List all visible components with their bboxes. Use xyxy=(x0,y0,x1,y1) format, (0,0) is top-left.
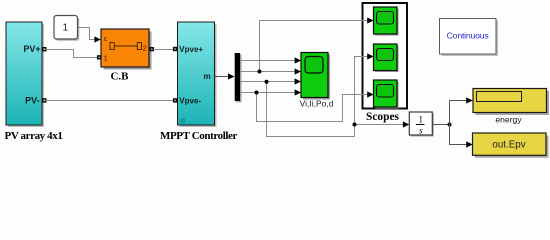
svg-text:c: c xyxy=(104,36,108,43)
svg-text:Vi,Ii,Po,d: Vi,Ii,Po,d xyxy=(300,99,334,109)
display block energy xyxy=(473,89,549,116)
wire to energy display xyxy=(450,97,473,124)
breaker icon xyxy=(110,43,147,53)
wire demux out4 d xyxy=(240,89,301,95)
svg-text:m: m xyxy=(203,72,210,81)
svg-text:energy: energy xyxy=(495,115,522,125)
wire PV- to Vpve- xyxy=(46,100,175,102)
svg-text:1: 1 xyxy=(63,23,68,34)
port C.B input 1 xyxy=(97,55,102,59)
wire constant to C.B c xyxy=(78,28,101,43)
svg-text:1: 1 xyxy=(419,115,424,125)
constant C1 value 1 xyxy=(54,16,79,41)
junction dot integrator output xyxy=(448,123,452,127)
junction dot on out4 xyxy=(255,91,259,95)
scope Vi,Ii,Po,d xyxy=(301,53,330,100)
port Vpve+ xyxy=(173,47,177,51)
port Vpve- xyxy=(173,98,177,102)
svg-text:MPPT Controller: MPPT Controller xyxy=(160,130,238,142)
svg-text:PV array 4x1: PV array 4x1 xyxy=(5,130,63,142)
block out.Epv To Workspace xyxy=(473,133,549,158)
wire PV+ to C.B port 1 xyxy=(46,50,98,58)
block Continuous powergui xyxy=(440,19,499,57)
branch wire Ii to scope S1 xyxy=(260,17,374,71)
svg-text:Scopes: Scopes xyxy=(366,111,399,123)
block PV array 4x1 xyxy=(6,22,44,127)
Scopes group box xyxy=(363,3,408,109)
block MPPT Controller xyxy=(178,22,217,127)
junction dot on out2 xyxy=(258,70,262,74)
wire integrator output xyxy=(432,124,449,126)
wire m to demux xyxy=(215,73,235,79)
svg-text:1: 1 xyxy=(104,55,108,62)
svg-text:2: 2 xyxy=(143,46,147,53)
branch wire d to scope S3 xyxy=(257,91,374,121)
demux xyxy=(235,53,242,103)
svg-text:PV+: PV+ xyxy=(23,44,40,54)
svg-text:C.B: C.B xyxy=(110,70,129,82)
scope S2 xyxy=(374,44,399,72)
wire demux out3 Po xyxy=(240,78,301,84)
port PV- xyxy=(42,98,47,102)
integrator 1/s xyxy=(409,112,434,137)
svg-text:PV-: PV- xyxy=(25,96,40,106)
port PV+ xyxy=(42,47,47,51)
block C.B circuit breaker xyxy=(101,29,152,70)
scope S3 xyxy=(374,80,399,109)
branch wire Po down and to integrator / scope S2 xyxy=(267,53,410,136)
junction dot on out3 xyxy=(265,80,269,84)
scope S1 xyxy=(374,7,399,36)
wire demux out1 Vi xyxy=(240,57,301,63)
wire to out.Epv xyxy=(450,125,473,148)
svg-text:Continuous: Continuous xyxy=(447,31,490,41)
wire demux out2 Ii xyxy=(240,68,301,74)
svg-text:Vpve+: Vpve+ xyxy=(179,45,203,54)
MPPT link badge xyxy=(181,119,185,123)
wire C.B to Vpve+ xyxy=(153,49,174,51)
svg-text:out.Epv: out.Epv xyxy=(492,139,525,150)
port C.B output 2 xyxy=(150,47,154,51)
svg-text:s: s xyxy=(419,126,423,136)
svg-text:Vpve-: Vpve- xyxy=(179,96,201,105)
junction dot Po branch xyxy=(353,123,357,127)
